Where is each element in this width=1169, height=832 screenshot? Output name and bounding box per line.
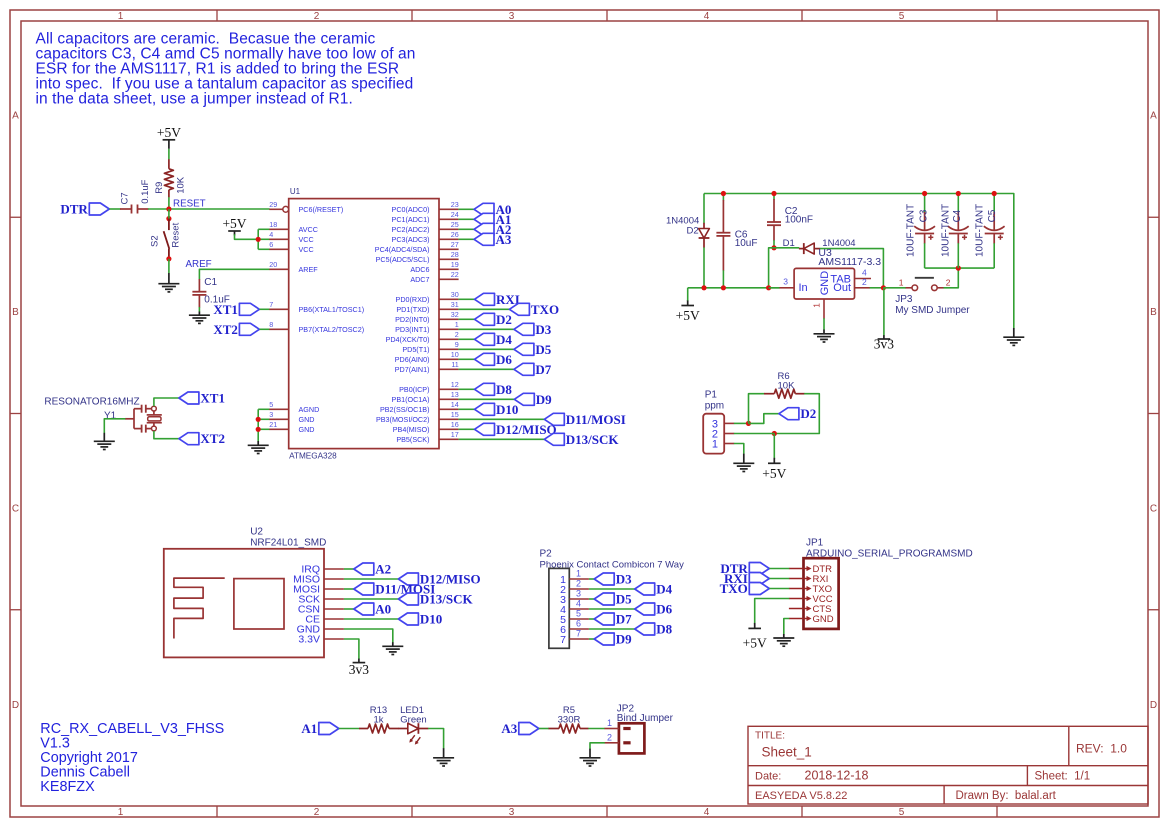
svg-text:Sheet: 1/1: Sheet: 1/1 — [1035, 771, 1091, 783]
U1 pin 4 VCC — [269, 230, 313, 244]
capacitor C2 100nF — [767, 199, 813, 241]
svg-text:1: 1 — [118, 807, 124, 818]
wire pin 2 to port D4 — [459, 338, 475, 340]
wire pin 13 to port D9 — [459, 398, 515, 400]
port D2 (ppm) — [779, 406, 816, 421]
svg-text:1: 1 — [118, 11, 124, 22]
svg-text:R9: R9 — [154, 182, 165, 194]
svg-text:7: 7 — [269, 300, 273, 309]
wire XT2 — [259, 328, 269, 330]
svg-text:3.3V: 3.3V — [298, 634, 320, 646]
junction C4 top — [956, 191, 961, 196]
capacitor C5 10UF-TANT — [974, 204, 1004, 257]
svg-text:3: 3 — [576, 589, 581, 599]
U1 pin 3 GND — [269, 410, 314, 424]
junction C2 top — [771, 191, 776, 196]
ground (resonator) — [94, 433, 115, 450]
port D13/SCK (U2) — [398, 592, 473, 607]
port DTR — [60, 202, 109, 217]
U2 antenna symbol — [174, 578, 284, 638]
U1 pin 13 PB1(OC1A) — [392, 390, 459, 404]
svg-text:B: B — [1150, 307, 1157, 318]
wire P2 pin 7 to D9 — [589, 638, 594, 640]
JP1 pin DTR — [789, 564, 832, 575]
wire pin 17 to port D13/SCK — [459, 438, 545, 440]
wire C3 bottom — [924, 243, 926, 268]
svg-text:31: 31 — [451, 300, 459, 309]
svg-text:D3: D3 — [535, 322, 551, 337]
resistor R6 10K — [764, 371, 805, 398]
svg-text:AMS1117-3.3: AMS1117-3.3 — [818, 256, 881, 268]
svg-text:6: 6 — [269, 240, 273, 249]
junction P1 pin3 — [746, 421, 751, 426]
port TXO (to JP1) — [720, 581, 770, 596]
svg-text:PD4(XCK/T0): PD4(XCK/T0) — [386, 335, 430, 344]
svg-text:3: 3 — [269, 410, 273, 419]
svg-text:A: A — [1150, 111, 1157, 122]
svg-text:0.1uF: 0.1uF — [140, 179, 151, 203]
svg-text:6: 6 — [576, 619, 581, 629]
ground (right) — [1003, 328, 1024, 345]
junction VCC — [256, 237, 261, 242]
svg-text:+5V: +5V — [157, 125, 181, 140]
wire P1 pin1 to ground — [734, 444, 744, 454]
svg-text:D: D — [12, 700, 19, 711]
svg-text:7: 7 — [560, 634, 566, 646]
svg-text:2: 2 — [862, 277, 867, 287]
U1 pin 5 AGND — [269, 400, 319, 414]
svg-text:10K: 10K — [778, 381, 796, 392]
svg-text:DTR: DTR — [60, 202, 88, 217]
U1 pin 29 PC6(/RESET) — [269, 200, 343, 214]
ground (LED1) — [433, 748, 454, 766]
port D4 (P2) — [635, 582, 673, 597]
svg-text:10: 10 — [451, 350, 459, 359]
svg-text:1: 1 — [576, 569, 581, 579]
wire U2 GND to ground — [344, 629, 393, 643]
svg-text:PB1(OC1A): PB1(OC1A) — [392, 395, 430, 404]
U1 pin 19 ADC6 — [410, 260, 458, 274]
svg-text:2: 2 — [314, 11, 320, 22]
junction Out net — [881, 285, 886, 290]
svg-text:TITLE:: TITLE: — [755, 731, 785, 742]
U2 pin 3.3V — [298, 634, 344, 646]
svg-text:PB4(MISO): PB4(MISO) — [393, 425, 430, 434]
svg-text:9: 9 — [455, 340, 459, 349]
svg-text:26: 26 — [451, 230, 459, 239]
svg-text:PC4(ADC4/SDA): PC4(ADC4/SDA) — [375, 245, 430, 254]
svg-text:PB5(SCK): PB5(SCK) — [396, 435, 429, 444]
svg-text:PB3(MOSI/OC2): PB3(MOSI/OC2) — [376, 415, 430, 424]
wire C3 top — [924, 194, 926, 213]
svg-text:VCC: VCC — [299, 235, 314, 244]
U1 pin 2 PD4(XCK/T0) — [386, 330, 459, 344]
wire C2 branch top — [773, 194, 775, 200]
svg-text:2: 2 — [607, 732, 612, 742]
wire JP2 pin2 to ground — [590, 743, 605, 749]
wire pin 31 to port TXO — [459, 308, 510, 310]
wire D1 to Out net — [820, 249, 884, 288]
svg-text:Green: Green — [400, 715, 426, 726]
port D12/MISO (U2) — [398, 572, 480, 587]
port D6 (P2) — [635, 602, 673, 617]
svg-text:23: 23 — [451, 200, 459, 209]
power flag +5V (input) — [676, 300, 700, 323]
wire D2 branch bottom — [703, 247, 705, 287]
wire +5V bottom bus — [688, 287, 780, 289]
svg-text:25: 25 — [451, 220, 459, 229]
junction GND pin3 — [256, 417, 261, 422]
svg-text:Date:: Date: — [755, 771, 781, 783]
svg-text:VCC: VCC — [299, 245, 314, 254]
capacitor C4 10UF-TANT — [941, 204, 969, 257]
svg-text:AREF: AREF — [186, 259, 212, 270]
wire MISO to D12/MISO — [344, 578, 399, 580]
P2 pin 4 — [560, 599, 589, 616]
port TXO — [509, 302, 559, 317]
wire pin 12 to port D8 — [459, 388, 475, 390]
wire +5V top bus — [704, 194, 1014, 329]
svg-text:Out: Out — [833, 282, 851, 294]
wire pin 16 to port D12/MISO — [459, 428, 475, 430]
svg-text:4: 4 — [704, 807, 710, 818]
wire switch to ground — [168, 259, 170, 273]
U1 pin 8 PB7(XTAL2/TOSC2) — [269, 320, 364, 334]
svg-text:2: 2 — [314, 807, 320, 818]
wire pin 14 to port D10 — [459, 408, 475, 410]
svg-text:AVCC: AVCC — [299, 225, 318, 234]
svg-text:ARDUINO_SERIAL_PROGRAMSMD: ARDUINO_SERIAL_PROGRAMSMD — [806, 548, 973, 559]
port D7 — [514, 362, 552, 377]
svg-text:30: 30 — [451, 290, 459, 299]
U1 pin 22 ADC7 — [410, 270, 458, 284]
svg-text:RESET: RESET — [173, 199, 206, 210]
svg-text:PB2(SS/OC1B): PB2(SS/OC1B) — [380, 405, 430, 414]
svg-text:5: 5 — [269, 400, 273, 409]
connector P2 Phoenix Contact Combicon 7 Way — [540, 549, 685, 649]
port RXI (to JP1) — [724, 571, 769, 586]
P2 pin 7 — [560, 629, 589, 646]
svg-text:My SMD Jumper: My SMD Jumper — [895, 305, 970, 316]
U1 pin 12 PB0(ICP) — [399, 380, 459, 394]
svg-text:D4: D4 — [656, 582, 672, 597]
power flag +5V (JP1) — [743, 623, 767, 651]
junction GND pin21 — [256, 427, 261, 432]
svg-text:GND: GND — [299, 415, 315, 424]
svg-text:Drawn By: balal.art: Drawn By: balal.art — [956, 790, 1057, 802]
wire CE to D10 — [344, 618, 399, 620]
svg-text:D7: D7 — [535, 362, 551, 377]
annotation note about capacitors — [36, 30, 416, 107]
svg-text:D4: D4 — [496, 332, 512, 347]
wire pin 30 to port RXI — [459, 298, 475, 300]
svg-text:D2: D2 — [800, 406, 816, 421]
svg-text:10K: 10K — [175, 176, 186, 194]
svg-text:XT2: XT2 — [213, 322, 238, 337]
capacitor C6 10uF — [716, 200, 757, 271]
U2 pin SCK — [298, 594, 343, 606]
svg-text:GND: GND — [299, 425, 315, 434]
port D8 — [475, 382, 513, 397]
port D5 — [514, 342, 552, 357]
svg-text:D9: D9 — [536, 392, 552, 407]
U1 pin 26 PC3(ADC3) — [392, 230, 459, 244]
svg-text:U1: U1 — [290, 187, 301, 196]
port RXI — [475, 292, 520, 307]
svg-text:JP3: JP3 — [895, 294, 913, 305]
svg-text:2018-12-18: 2018-12-18 — [805, 769, 869, 783]
port XT2 (to U1) — [213, 322, 259, 337]
wire C5 top — [993, 194, 995, 213]
svg-text:17: 17 — [451, 430, 459, 439]
svg-text:A0: A0 — [375, 602, 391, 617]
U1 pin 11 PD7(AIN1) — [395, 360, 459, 374]
svg-text:A3: A3 — [496, 232, 512, 247]
svg-text:+5V: +5V — [222, 216, 246, 231]
svg-text:4: 4 — [269, 230, 273, 239]
wire P2 pin 2 to D4 — [589, 588, 635, 590]
annotation copyright text — [40, 721, 224, 795]
junction switch top — [166, 216, 171, 221]
svg-text:20: 20 — [269, 260, 277, 269]
JP2 pin 2 — [605, 732, 619, 743]
wire 3v3 stem — [883, 288, 885, 335]
svg-text:24: 24 — [451, 210, 459, 219]
svg-text:TXO: TXO — [720, 581, 748, 596]
wire D1 anode side — [774, 247, 799, 249]
svg-text:1: 1 — [812, 303, 822, 308]
wire Out stub — [870, 287, 884, 289]
junction RESET node — [166, 206, 171, 211]
U1 pin 18 AVCC — [269, 220, 318, 234]
wire A3 to R5 — [539, 728, 549, 730]
U1 pin 15 PB3(MOSI/OC2) — [376, 410, 459, 424]
wire C5 bottom — [993, 243, 995, 268]
svg-text:32: 32 — [451, 310, 459, 319]
svg-text:PD5(T1): PD5(T1) — [402, 345, 429, 354]
junction P1 pin2 — [772, 431, 777, 436]
svg-text:D6: D6 — [656, 602, 672, 617]
svg-text:2: 2 — [576, 579, 581, 589]
wire pin2 to +5V — [773, 434, 775, 460]
wire U3 GND pin to ground — [823, 318, 825, 330]
U1 pin 6 VCC — [269, 240, 313, 254]
port A3 — [501, 721, 538, 736]
svg-text:1: 1 — [712, 438, 718, 450]
svg-text:12: 12 — [451, 380, 459, 389]
svg-text:D12/MISO: D12/MISO — [496, 422, 557, 437]
U2 pin IRQ — [301, 564, 344, 576]
wire P2 pin 4 to D6 — [589, 608, 635, 610]
IC U2 NRF24L01_SMD body — [164, 527, 327, 658]
svg-text:2: 2 — [455, 330, 459, 339]
svg-text:1: 1 — [607, 718, 612, 728]
svg-text:AGND: AGND — [299, 405, 320, 414]
svg-text:3: 3 — [783, 277, 788, 287]
svg-text:PD2(INT0): PD2(INT0) — [395, 315, 429, 324]
svg-text:P1: P1 — [705, 390, 718, 401]
svg-text:22: 22 — [451, 270, 459, 279]
ground (P1) — [733, 454, 754, 472]
wire pin 11 to port D7 — [459, 368, 514, 370]
ground (below U1) — [248, 441, 269, 454]
wire LED1 to ground — [428, 729, 444, 749]
P2 pin 5 — [560, 609, 589, 626]
port A2 — [474, 222, 511, 237]
wire In stub — [769, 287, 780, 289]
switch S2 Reset — [149, 219, 181, 259]
port D13/SCK — [544, 432, 619, 447]
svg-text:A2: A2 — [375, 562, 391, 577]
jumper JP2 Bind Jumper body — [617, 704, 674, 754]
svg-text:A1: A1 — [301, 721, 317, 736]
wire R9 to RESET node — [168, 197, 170, 209]
wire pin 15 to port D11/MOSI — [459, 418, 545, 420]
JP1 pin RXI — [789, 574, 828, 585]
wire C6 branch bottom — [722, 270, 724, 288]
wire JP1 GND to ground — [784, 619, 790, 635]
svg-text:Sheet_1: Sheet_1 — [762, 745, 812, 760]
svg-text:XT1: XT1 — [200, 391, 225, 406]
port D10 (U2) — [398, 612, 442, 627]
svg-text:D13/SCK: D13/SCK — [420, 592, 474, 607]
LED LED1 Green — [399, 705, 429, 745]
wire R5 to JP2 pin1 — [588, 728, 605, 730]
junction cap bus — [956, 266, 961, 271]
wire U1 ground bus — [258, 409, 269, 441]
junction C3 top — [922, 191, 927, 196]
port D9 — [514, 392, 552, 407]
port D8 (P2) — [635, 622, 673, 637]
svg-text:3v3: 3v3 — [349, 662, 370, 677]
JP1 pin CTS — [789, 604, 832, 615]
U1 pin 27 PC4(ADC4/SDA) — [375, 240, 459, 254]
svg-text:5: 5 — [899, 11, 905, 22]
power flag 3v3 (U2) — [349, 659, 370, 677]
svg-text:PC5(ADC5/SCL): PC5(ADC5/SCL) — [376, 255, 430, 264]
svg-text:+5V: +5V — [676, 308, 700, 323]
regulator U3 AMS1117-3.3 — [779, 247, 881, 319]
U1 pin 17 PB5(SCK) — [396, 430, 458, 444]
wire JP1 VCC to +5V — [755, 599, 790, 625]
P2 pin 6 — [560, 619, 589, 636]
svg-text:PC0(ADC0): PC0(ADC0) — [392, 205, 430, 214]
wire JP3 pin2 to cap bus — [944, 268, 959, 288]
port A0 (U2) — [354, 602, 391, 617]
svg-text:PC1(ADC1): PC1(ADC1) — [392, 215, 430, 224]
svg-text:TXO: TXO — [531, 302, 559, 317]
svg-text:D8: D8 — [496, 382, 512, 397]
U1 pin 28 PC5(ADC5/SCL) — [376, 250, 459, 264]
wire +5V flag stem — [687, 288, 689, 301]
svg-text:D10: D10 — [420, 612, 442, 627]
wire D2 port branch — [749, 414, 780, 424]
svg-text:KE8FZX: KE8FZX — [40, 779, 95, 795]
U2 pin CSN — [298, 604, 344, 616]
junction U3 In — [766, 285, 771, 290]
JP2 pin 1 — [605, 718, 619, 729]
wire resonator to XT2 — [154, 431, 179, 439]
svg-text:ppm: ppm — [705, 401, 724, 412]
wire pin 32 to port D2 — [459, 318, 475, 320]
wire pin 24 to port A1 — [459, 218, 474, 220]
wire MOSI to D11/MOSI — [344, 588, 354, 590]
port D3 (P2) — [594, 572, 632, 587]
jumper JP3 My SMD Jumper — [895, 278, 970, 317]
svg-text:D6: D6 — [496, 352, 512, 367]
svg-text:28: 28 — [451, 250, 459, 259]
wire C4 top — [957, 194, 959, 213]
resistor R5 330R — [549, 705, 589, 733]
junction C5 top — [992, 191, 997, 196]
wire node to switch — [168, 209, 170, 219]
svg-text:29: 29 — [269, 200, 277, 209]
wire P2 pin 3 to D5 — [589, 598, 594, 600]
wire DTR to C7 — [109, 208, 120, 210]
svg-text:PB0(ICP): PB0(ICP) — [399, 385, 429, 394]
svg-text:D2: D2 — [496, 312, 512, 327]
svg-text:GND: GND — [819, 271, 831, 296]
U2 pin CE — [305, 614, 343, 626]
wire pin 9 to port D5 — [459, 348, 514, 350]
svg-text:14: 14 — [451, 400, 459, 409]
svg-text:RESONATOR16MHZ: RESONATOR16MHZ — [44, 397, 139, 408]
port D12/MISO — [475, 422, 557, 437]
ground (JP1) — [773, 634, 794, 646]
diode D2 1N4004 — [666, 215, 709, 247]
U2 pin MOSI — [293, 584, 344, 596]
svg-text:Bind Jumper: Bind Jumper — [617, 713, 674, 724]
svg-text:In: In — [799, 282, 808, 294]
wire pin 10 to port D6 — [459, 358, 475, 360]
svg-text:EASYEDA V5.8.22: EASYEDA V5.8.22 — [755, 790, 847, 802]
wire IRQ to A2 — [344, 568, 354, 570]
wire U2 3.3V to 3v3 flag — [344, 639, 359, 659]
junction C6 bottom — [721, 285, 726, 290]
wire AREF net — [199, 269, 269, 279]
U1 pin 20 AREF — [269, 260, 318, 274]
U1 pin 16 PB4(MISO) — [393, 420, 459, 434]
port XT1 (to U1) — [213, 302, 259, 317]
U1 pin 23 PC0(ADC0) — [392, 200, 459, 214]
junction D2 bottom — [701, 285, 706, 290]
U1 pin 25 PC2(ADC2) — [392, 220, 459, 234]
svg-text:D5: D5 — [616, 592, 632, 607]
U1 pin 31 PD1(TXD) — [396, 300, 458, 314]
svg-text:ADC6: ADC6 — [410, 265, 429, 274]
wire +5V to R9 — [168, 149, 170, 160]
port A0 — [474, 202, 511, 217]
svg-text:15: 15 — [451, 410, 459, 419]
wire CSN to A0 — [344, 608, 354, 610]
svg-text:3: 3 — [509, 807, 515, 818]
svg-text:19: 19 — [451, 260, 459, 269]
port D6 — [475, 352, 513, 367]
wire pin 26 to port A3 — [459, 238, 474, 240]
port A2 (U2) — [354, 562, 391, 577]
svg-text:D3: D3 — [616, 572, 632, 587]
wire C2 to D1 node — [773, 240, 775, 248]
svg-text:S2: S2 — [149, 235, 160, 247]
svg-text:PD3(INT1): PD3(INT1) — [395, 325, 429, 334]
svg-text:C4: C4 — [952, 209, 963, 222]
wire TXO — [769, 588, 789, 590]
capacitor C1 0.1uF — [192, 277, 229, 308]
wire D1 node to In node — [769, 248, 774, 288]
svg-text:+5V: +5V — [762, 466, 786, 481]
svg-text:3v3: 3v3 — [874, 337, 895, 352]
resonator Y1 16MHz — [44, 397, 161, 433]
